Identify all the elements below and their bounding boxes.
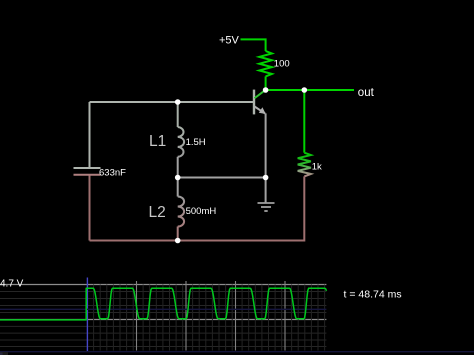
- junction node at base rail and L1: [175, 99, 181, 105]
- wire collector node to out node: [266, 89, 305, 91]
- wire base rail from top-left corner to L1 junction: [90, 101, 178, 103]
- inductor L1 top lead: [177, 102, 179, 127]
- junction node between L1 and L2: [175, 175, 181, 181]
- value label 100: [274, 58, 290, 69]
- transistor Q1 collector lead: [255, 90, 266, 98]
- capacitor C1 bottom lead: [89, 175, 91, 241]
- inductor L2 coil: [178, 197, 184, 227]
- wire emitter junction to ground: [265, 178, 267, 203]
- svg-text:L2: L2: [149, 204, 166, 221]
- scope scale label 4.7 V: [0, 278, 24, 289]
- wire out node down to resistor R2: [303, 90, 305, 153]
- resistor R2 1k: [298, 153, 311, 177]
- junction node at L2 bottom rail: [175, 238, 181, 244]
- svg-text:L1: L1: [149, 133, 166, 150]
- scope trace waveform: [0, 288, 327, 320]
- svg-text:1k: 1k: [312, 162, 322, 173]
- value label 1.5H: [186, 137, 206, 148]
- voltage source +5V label: [219, 35, 240, 47]
- svg-text:t = 48.74 ms: t = 48.74 ms: [344, 289, 402, 301]
- scope blue horizontal baseline: [0, 308, 326, 310]
- wire base rail from L1 junction to transistor base: [178, 101, 254, 103]
- node out label: [358, 87, 375, 99]
- svg-text:+5V: +5V: [219, 35, 240, 47]
- ground symbol: [258, 203, 275, 211]
- transistor Q1 base bar: [253, 90, 255, 115]
- wire emitter down to emitter junction: [265, 113, 267, 177]
- value label 500mH: [186, 206, 217, 217]
- scope bottom window edge line: [0, 351, 474, 353]
- value label 633nF: [99, 168, 126, 179]
- scope horizontal gridlines: [0, 285, 326, 347]
- inductor L2 top lead: [177, 178, 179, 197]
- scope vertical gridlines: [94, 281, 325, 351]
- capacitor C1 top lead: [89, 102, 91, 168]
- wire resistor R2 bottom to bottom rail: [178, 176, 305, 240]
- svg-text:4.7 V: 4.7 V: [0, 278, 24, 289]
- wire resistor R1 bottom to collector node: [265, 76, 267, 90]
- capacitor C1 plates: [74, 168, 101, 175]
- svg-text:100: 100: [274, 58, 290, 69]
- wire from +5V to resistor R1: [241, 39, 266, 51]
- bottom-left status marks: [0, 352, 8, 355]
- label L1: [149, 133, 166, 150]
- inductor L1 coil: [178, 127, 184, 157]
- transistor Q1 emitter lead with arrow: [255, 107, 266, 115]
- resistor R1 100 ohm: [259, 51, 272, 76]
- junction node at emitter ground: [263, 175, 269, 181]
- scope zero-time blue marker line: [86, 278, 88, 353]
- value label 1k: [312, 162, 322, 173]
- svg-text:500mH: 500mH: [186, 206, 217, 217]
- junction node at collector: [263, 87, 269, 93]
- wire out node to out label: [304, 89, 354, 91]
- scope time label t = 48.74 ms: [344, 289, 402, 301]
- wire mid junction to emitter junction: [178, 177, 266, 179]
- label L2: [149, 204, 166, 221]
- inductor L1 bottom lead: [177, 157, 179, 178]
- inductor L2 bottom lead: [177, 227, 179, 241]
- svg-text:633nF: 633nF: [99, 168, 126, 179]
- wire bottom rail left segment: [90, 240, 178, 242]
- svg-text:out: out: [358, 87, 375, 99]
- svg-text:1.5H: 1.5H: [186, 137, 206, 148]
- junction node at out: [302, 87, 308, 93]
